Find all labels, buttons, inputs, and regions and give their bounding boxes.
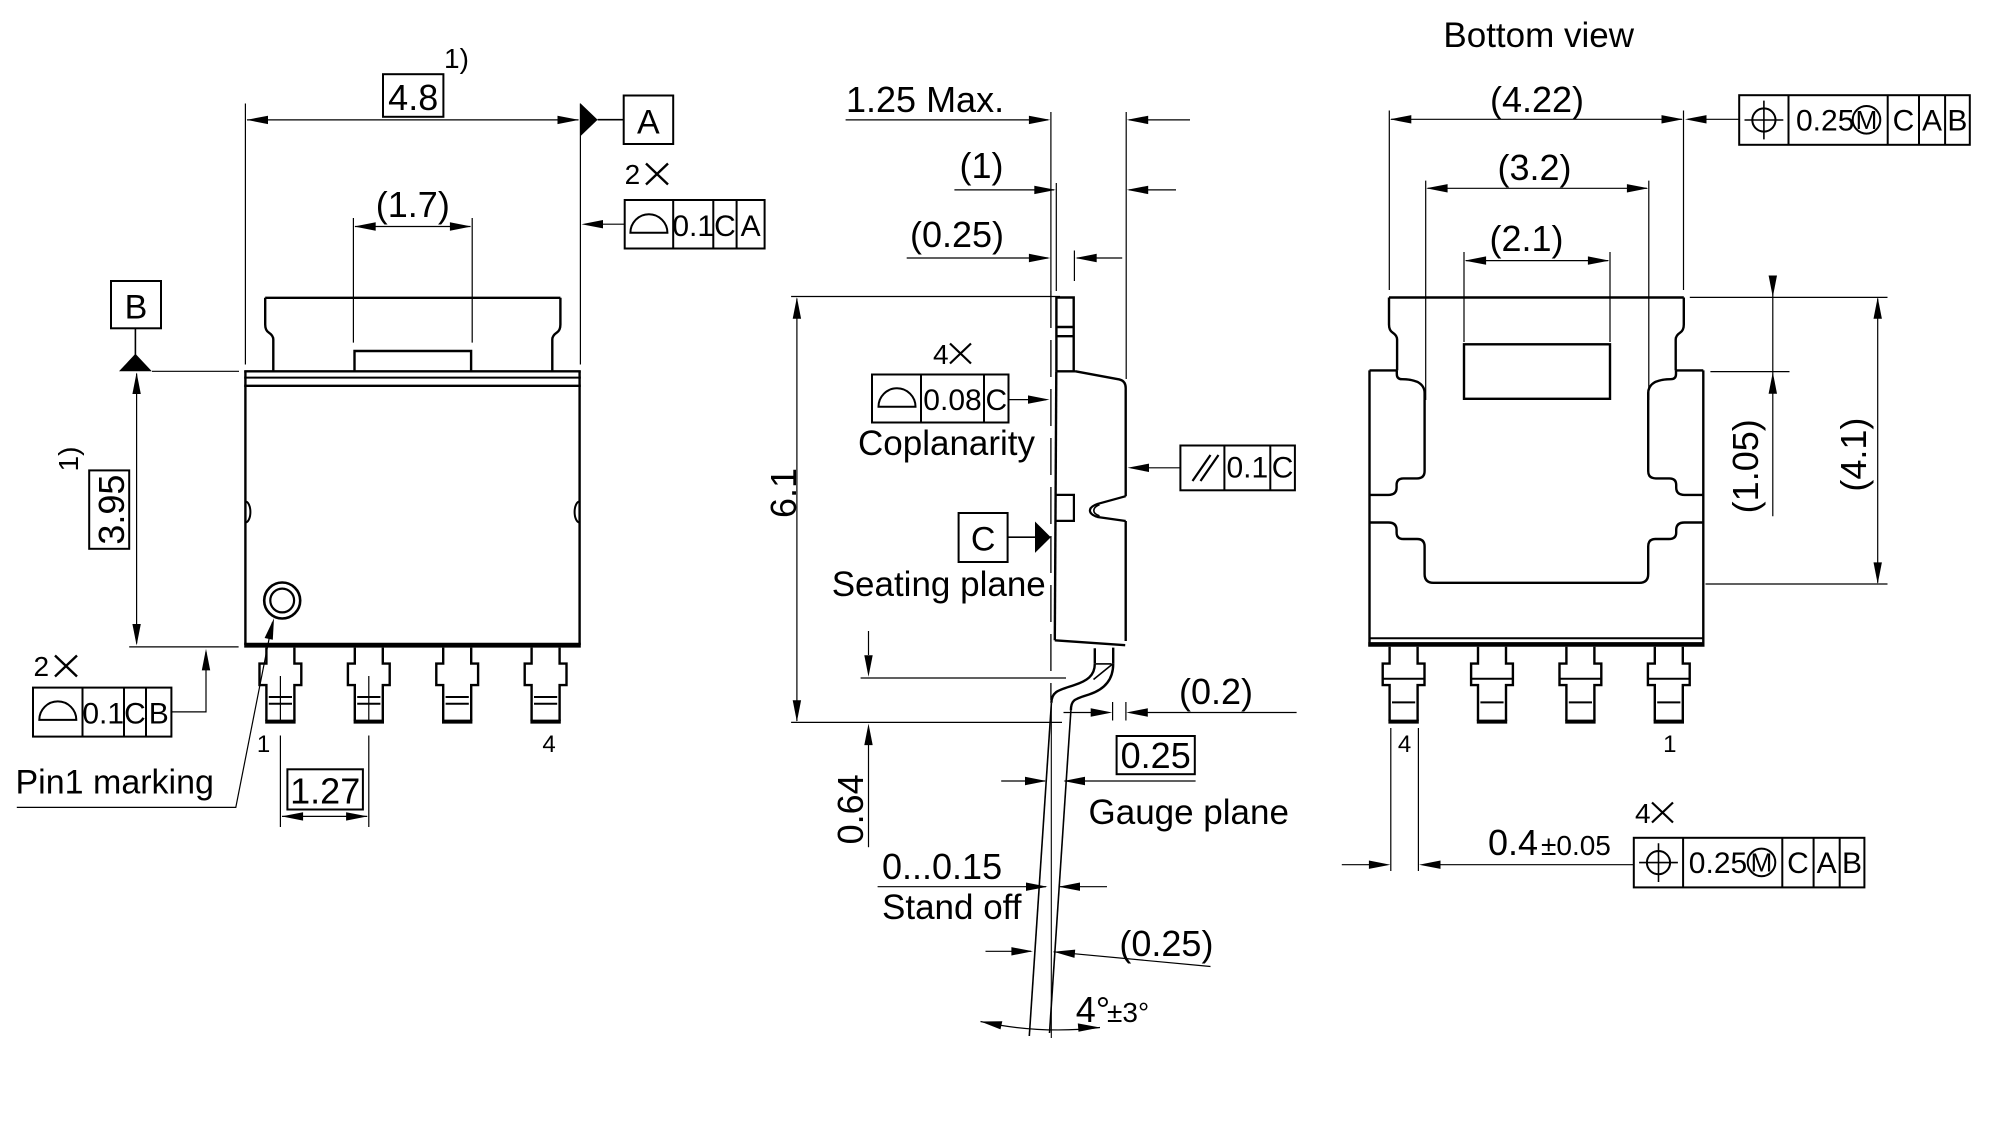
svg-text:1: 1 — [257, 731, 270, 758]
dimension 4.8 line — [247, 119, 579, 121]
svg-text:Coplanarity: Coplanarity — [858, 424, 1036, 463]
ext tick tab back — [1073, 251, 1075, 282]
frame 0.1CA leader arrow — [585, 223, 625, 225]
bv lower window — [1370, 523, 1704, 583]
front tab inner boss — [355, 351, 472, 371]
dim (0.25) foot line — [986, 951, 1211, 966]
top frame leader — [1688, 118, 1739, 120]
svg-text:±0.05: ±0.05 — [1541, 830, 1611, 861]
datum C triangle — [1035, 522, 1051, 553]
datum B triangle — [119, 354, 152, 372]
dim 0.64 top arrow — [868, 631, 870, 655]
bv upper window left — [1370, 370, 1425, 495]
front cap line 3 (body top) — [244, 385, 581, 387]
svg-text:C: C — [1787, 847, 1809, 880]
profile symbol — [39, 701, 76, 719]
gauge plane dim line — [1001, 780, 1195, 782]
parallelism frame // 0.1 C — [1180, 446, 1295, 491]
frame 0.1CB leader — [171, 652, 206, 712]
svg-text:(2.1): (2.1) — [1489, 218, 1563, 259]
dimension 4.8 arrows — [247, 116, 269, 124]
dim 0.4 ext lines — [1391, 728, 1419, 871]
svg-text:4: 4 — [933, 339, 949, 370]
dim (3.2) line — [1428, 187, 1648, 189]
seating plane dash line — [1050, 291, 1052, 700]
svg-text:0.25: 0.25 — [1796, 105, 1854, 138]
dim (1.7) ext lines — [353, 218, 472, 343]
svg-text:A: A — [741, 210, 761, 243]
side lead leg front edge — [1029, 703, 1051, 1036]
ext line lead front plane — [1050, 112, 1052, 291]
dim (1) line — [954, 189, 1176, 191]
front lead 1 — [260, 648, 302, 722]
svg-text:0.64: 0.64 — [830, 774, 871, 844]
dimension 3.95 bottom extension — [129, 646, 238, 648]
svg-text:M: M — [1856, 105, 1878, 135]
parallelism leader arrow — [1131, 467, 1180, 469]
svg-text:4: 4 — [1398, 731, 1411, 758]
coplanarity leader arrow — [1009, 399, 1047, 401]
bv center pad rect — [1464, 344, 1610, 399]
svg-text:0.1: 0.1 — [1226, 452, 1268, 485]
lead1 centerline — [279, 676, 281, 827]
svg-text:4: 4 — [1635, 798, 1651, 829]
bv body bottom thin edge — [1370, 637, 1704, 639]
dimension 4.8 extension lines — [245, 104, 580, 365]
dim 6.1 line — [796, 299, 798, 722]
svg-text:1.27: 1.27 — [290, 771, 360, 812]
datum C box — [959, 513, 1008, 562]
dimension 1.27 arrows — [282, 812, 304, 820]
front body right edge — [578, 371, 580, 645]
dim (2.1) line — [1466, 260, 1608, 262]
side lead stem edges — [1095, 648, 1113, 664]
dim (1.7) arrows — [354, 222, 376, 230]
bv step-out left — [1370, 369, 1398, 371]
front tab left side — [265, 298, 273, 372]
svg-text:0...0.15: 0...0.15 — [882, 846, 1002, 887]
top position frame — [1739, 95, 1970, 145]
svg-text:M: M — [1751, 848, 1773, 878]
front tab right side — [552, 298, 560, 372]
svg-text:2: 2 — [34, 651, 50, 682]
datum B box — [111, 281, 161, 328]
datum A box — [624, 96, 674, 145]
bottom position frame — [1634, 838, 1865, 888]
front body left edge — [244, 371, 246, 645]
dim (4.1) ext bottom — [1706, 583, 1888, 585]
dim (1.05) ext bottom — [1710, 371, 1789, 373]
svg-text:0.25: 0.25 — [1121, 735, 1191, 776]
side lead bend diagonal — [1094, 664, 1113, 679]
dim (3.2) ext lines — [1426, 181, 1649, 400]
front lead 3 — [436, 648, 478, 722]
dim (0.2) line — [1064, 712, 1297, 714]
ext line tab front — [1055, 183, 1057, 291]
bv lead 2 — [1560, 647, 1602, 722]
svg-text:Stand off: Stand off — [882, 888, 1022, 927]
feature control frame 0.1 C A — [625, 200, 765, 249]
dim (2.1) ext lines — [1464, 252, 1610, 342]
dim (0.25) line — [907, 257, 1122, 259]
svg-text:Seating plane: Seating plane — [832, 565, 1046, 604]
datum A triangle — [580, 103, 597, 136]
side front face notch — [1055, 495, 1074, 521]
profile symbol — [630, 214, 667, 233]
svg-text:B: B — [1947, 105, 1967, 138]
svg-text:(1): (1) — [960, 145, 1004, 186]
svg-text:1): 1) — [53, 447, 84, 472]
side body back bump — [1090, 496, 1126, 521]
bv tab top edge — [1389, 296, 1684, 298]
svg-text:B: B — [125, 289, 148, 327]
bv step-out right — [1676, 369, 1704, 371]
svg-text:1: 1 — [1663, 731, 1676, 758]
svg-text:3.95: 3.95 — [91, 475, 132, 545]
svg-text:A: A — [1922, 105, 1942, 138]
front cap line 2 — [244, 377, 581, 379]
svg-text:4: 4 — [542, 731, 555, 758]
svg-text:A: A — [637, 104, 660, 142]
pin1 marking circle outer — [264, 583, 300, 619]
dim (1.05) line and arrows — [1772, 279, 1774, 516]
side tab outline — [1056, 298, 1073, 372]
pin1 marking circle inner — [270, 589, 294, 613]
bv upper window right — [1648, 370, 1703, 495]
svg-text:(4.1): (4.1) — [1833, 418, 1874, 492]
bv tab right side — [1676, 298, 1684, 371]
svg-text:C: C — [1893, 105, 1915, 138]
datum B stem — [134, 328, 136, 355]
dim 0.64 bottom arrow and tail — [868, 745, 870, 847]
svg-text:0.1: 0.1 — [672, 210, 714, 243]
svg-text:4°: 4° — [1076, 989, 1110, 1030]
seating plane line (6.1 bottom extension) — [791, 721, 1062, 723]
side lead outer bend curve — [1071, 664, 1113, 711]
svg-text:0.1: 0.1 — [82, 698, 124, 731]
svg-text:(1.05): (1.05) — [1725, 419, 1766, 513]
bv lead 3 — [1471, 647, 1513, 722]
svg-text:B: B — [149, 698, 169, 731]
side lead inner bend curve — [1051, 664, 1094, 703]
svg-text:C: C — [124, 698, 146, 731]
front tab top edge — [265, 297, 560, 299]
svg-text:C: C — [1272, 452, 1294, 485]
side tab bottom / body shoulder — [1056, 370, 1075, 372]
side body top edge — [1076, 371, 1126, 388]
body bottom extension line — [861, 677, 1066, 679]
dim (0.2) ticks — [1113, 702, 1126, 721]
side lead leg back edge — [1050, 710, 1071, 1033]
lead2 centerline — [368, 676, 370, 827]
dim (4.1) line and arrows — [1877, 299, 1879, 583]
gauge plane 0.25 box — [1117, 736, 1195, 774]
dim 6.1 top extension — [791, 296, 1060, 298]
dim 1.25 Max line — [846, 119, 1190, 121]
svg-text:C: C — [714, 210, 736, 243]
side lead bend line — [1096, 663, 1112, 665]
bv body right edge — [1702, 370, 1704, 646]
svg-text:6.1: 6.1 — [763, 468, 804, 518]
svg-text:(0.2): (0.2) — [1179, 671, 1253, 712]
dimension 1.27 box — [287, 769, 363, 809]
pin1 marking leader — [17, 623, 272, 808]
side body bottom edge — [1055, 640, 1125, 645]
svg-text:Gauge plane: Gauge plane — [1089, 793, 1289, 832]
dimension 4.8 box — [383, 74, 443, 117]
angle 4 deg arc — [981, 1022, 1101, 1030]
svg-text:(0.25): (0.25) — [910, 214, 1004, 255]
feature control frame 0.08 C — [872, 375, 1009, 423]
bv body bottom thick edge — [1368, 642, 1704, 647]
bv lead 4 — [1383, 647, 1425, 722]
svg-text:0.25: 0.25 — [1689, 847, 1747, 880]
svg-text:1.25 Max.: 1.25 Max. — [846, 79, 1004, 120]
front right side notch — [575, 502, 580, 523]
dimension 3.95 arrows — [132, 373, 140, 395]
svg-text:0.08: 0.08 — [923, 384, 981, 417]
side body back bump inner arc — [1094, 505, 1100, 516]
svg-text:0.4: 0.4 — [1488, 822, 1538, 863]
bv lead 1 — [1648, 647, 1690, 722]
dim (4.22) ext lines — [1389, 111, 1683, 291]
dim (4.22) line — [1391, 118, 1682, 120]
ext line body back — [1125, 112, 1127, 379]
datum C leader — [1008, 536, 1035, 538]
feature control frame 0.1 C B — [33, 688, 171, 737]
svg-text:B: B — [1842, 847, 1862, 880]
svg-text:(3.2): (3.2) — [1497, 147, 1571, 188]
dim (1.05) ext top — [1690, 296, 1888, 298]
bv body left edge — [1368, 370, 1370, 646]
front left side notch — [245, 502, 250, 523]
dim 0.4 line — [1342, 864, 1634, 866]
dim 0...0.15 line — [878, 886, 1107, 888]
svg-text:C: C — [985, 384, 1007, 417]
svg-text:Pin1 marking: Pin1 marking — [16, 764, 214, 802]
front lead 4 — [525, 648, 567, 722]
front body bottom thick edge — [244, 643, 581, 648]
svg-text:C: C — [971, 521, 996, 559]
front cap line 1 — [244, 370, 581, 372]
datum B extension line — [152, 370, 239, 372]
svg-text:±3°: ±3° — [1107, 997, 1149, 1028]
svg-text:(1.7): (1.7) — [376, 184, 450, 225]
svg-text:4.8: 4.8 — [388, 77, 438, 118]
svg-text:(4.22): (4.22) — [1490, 79, 1584, 120]
svg-text:2: 2 — [625, 159, 641, 190]
side body back face — [1124, 388, 1126, 641]
dimension 1.27 line — [282, 815, 367, 817]
dimension 3.95 box — [89, 470, 129, 548]
side lead vertical reference line — [1050, 705, 1052, 1038]
svg-text:A: A — [1817, 847, 1837, 880]
side body front face — [1055, 371, 1057, 640]
front lead 2 — [348, 648, 390, 722]
dimension 3.95 line — [136, 374, 138, 644]
bv tab left side — [1389, 298, 1397, 371]
side tab step lines — [1056, 327, 1073, 336]
svg-text:(0.25): (0.25) — [1119, 923, 1213, 964]
svg-text:Bottom view: Bottom view — [1443, 16, 1634, 55]
dim (1.7) line — [355, 226, 470, 228]
datum A leader — [598, 119, 624, 121]
svg-text:1): 1) — [444, 43, 469, 74]
